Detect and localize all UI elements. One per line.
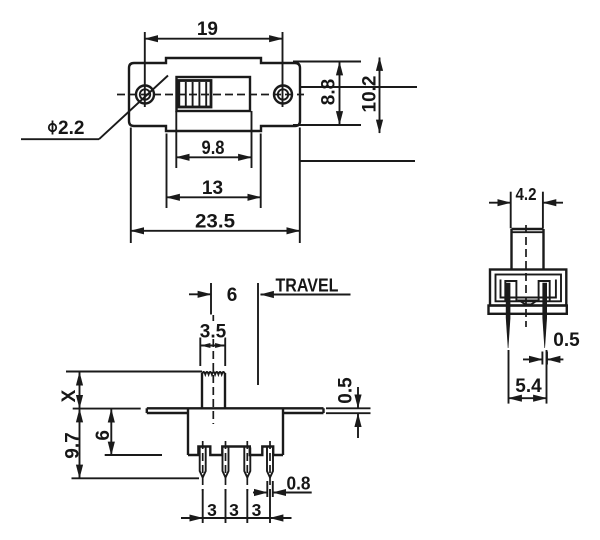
svg-text:3: 3 — [229, 500, 239, 520]
svg-text:TRAVEL: TRAVEL — [276, 275, 339, 296]
svg-text:0.8: 0.8 — [287, 474, 311, 494]
svg-text:8.8: 8.8 — [319, 79, 340, 105]
svg-text:13: 13 — [202, 178, 223, 199]
svg-text:0.5: 0.5 — [553, 330, 580, 351]
svg-text:6: 6 — [93, 430, 114, 441]
svg-text:3: 3 — [252, 500, 262, 520]
svg-text:X: X — [59, 389, 80, 402]
svg-text:19: 19 — [197, 19, 218, 40]
svg-text:9.7: 9.7 — [62, 432, 83, 458]
svg-text:9.8: 9.8 — [202, 138, 225, 159]
svg-text:10.2: 10.2 — [359, 76, 380, 113]
svg-text:3.5: 3.5 — [200, 322, 227, 343]
svg-text:2.2: 2.2 — [58, 118, 84, 139]
svg-text:23.5: 23.5 — [195, 212, 235, 233]
svg-text:3: 3 — [207, 500, 217, 520]
svg-text:0.5: 0.5 — [336, 377, 357, 404]
svg-text:6: 6 — [227, 285, 238, 306]
svg-text:5.4: 5.4 — [515, 376, 542, 397]
svg-text:4.2: 4.2 — [516, 184, 537, 204]
